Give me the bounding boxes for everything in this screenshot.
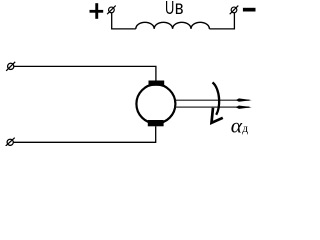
rotation arc (curved arrow over shaft)	[213, 82, 220, 114]
label alpha-d (motor shaft angle)	[231, 113, 249, 137]
plus terminal symbol (+)	[90, 3, 104, 19]
wire from X1 down and right to winding	[112, 13, 136, 29]
shaft line upper	[176, 99, 250, 101]
svg-text:д: д	[242, 123, 248, 135]
armature terminal X3 (top left, circle with slash)	[6, 62, 15, 71]
minus terminal symbol (-)	[243, 8, 256, 12]
wire from winding up to X2	[209, 13, 234, 29]
svg-text:в: в	[175, 0, 184, 19]
terminal X2 (circle with slash)	[230, 6, 239, 15]
bottom brush (filled rect)	[148, 120, 164, 126]
svg-text:α: α	[231, 113, 243, 137]
shaft arrowhead lower	[236, 106, 252, 109]
terminal X1 (circle with slash)	[107, 6, 116, 15]
wire X3 to top brush	[14, 66, 156, 80]
top brush (filled rect)	[149, 81, 165, 86]
svg-text:U: U	[165, 0, 174, 18]
label Uв (excitation voltage)	[165, 0, 184, 19]
rotation arrowhead (open V)	[212, 108, 223, 123]
wire bottom brush to X4	[13, 126, 155, 142]
armature terminal X4 (bottom left, circle with slash)	[6, 138, 15, 146]
shaft line lower	[176, 106, 250, 108]
excitation winding L (inductor, 4 humps)	[136, 22, 210, 29]
motor armature M (circle)	[136, 84, 175, 123]
shaft arrowhead upper	[236, 98, 252, 101]
